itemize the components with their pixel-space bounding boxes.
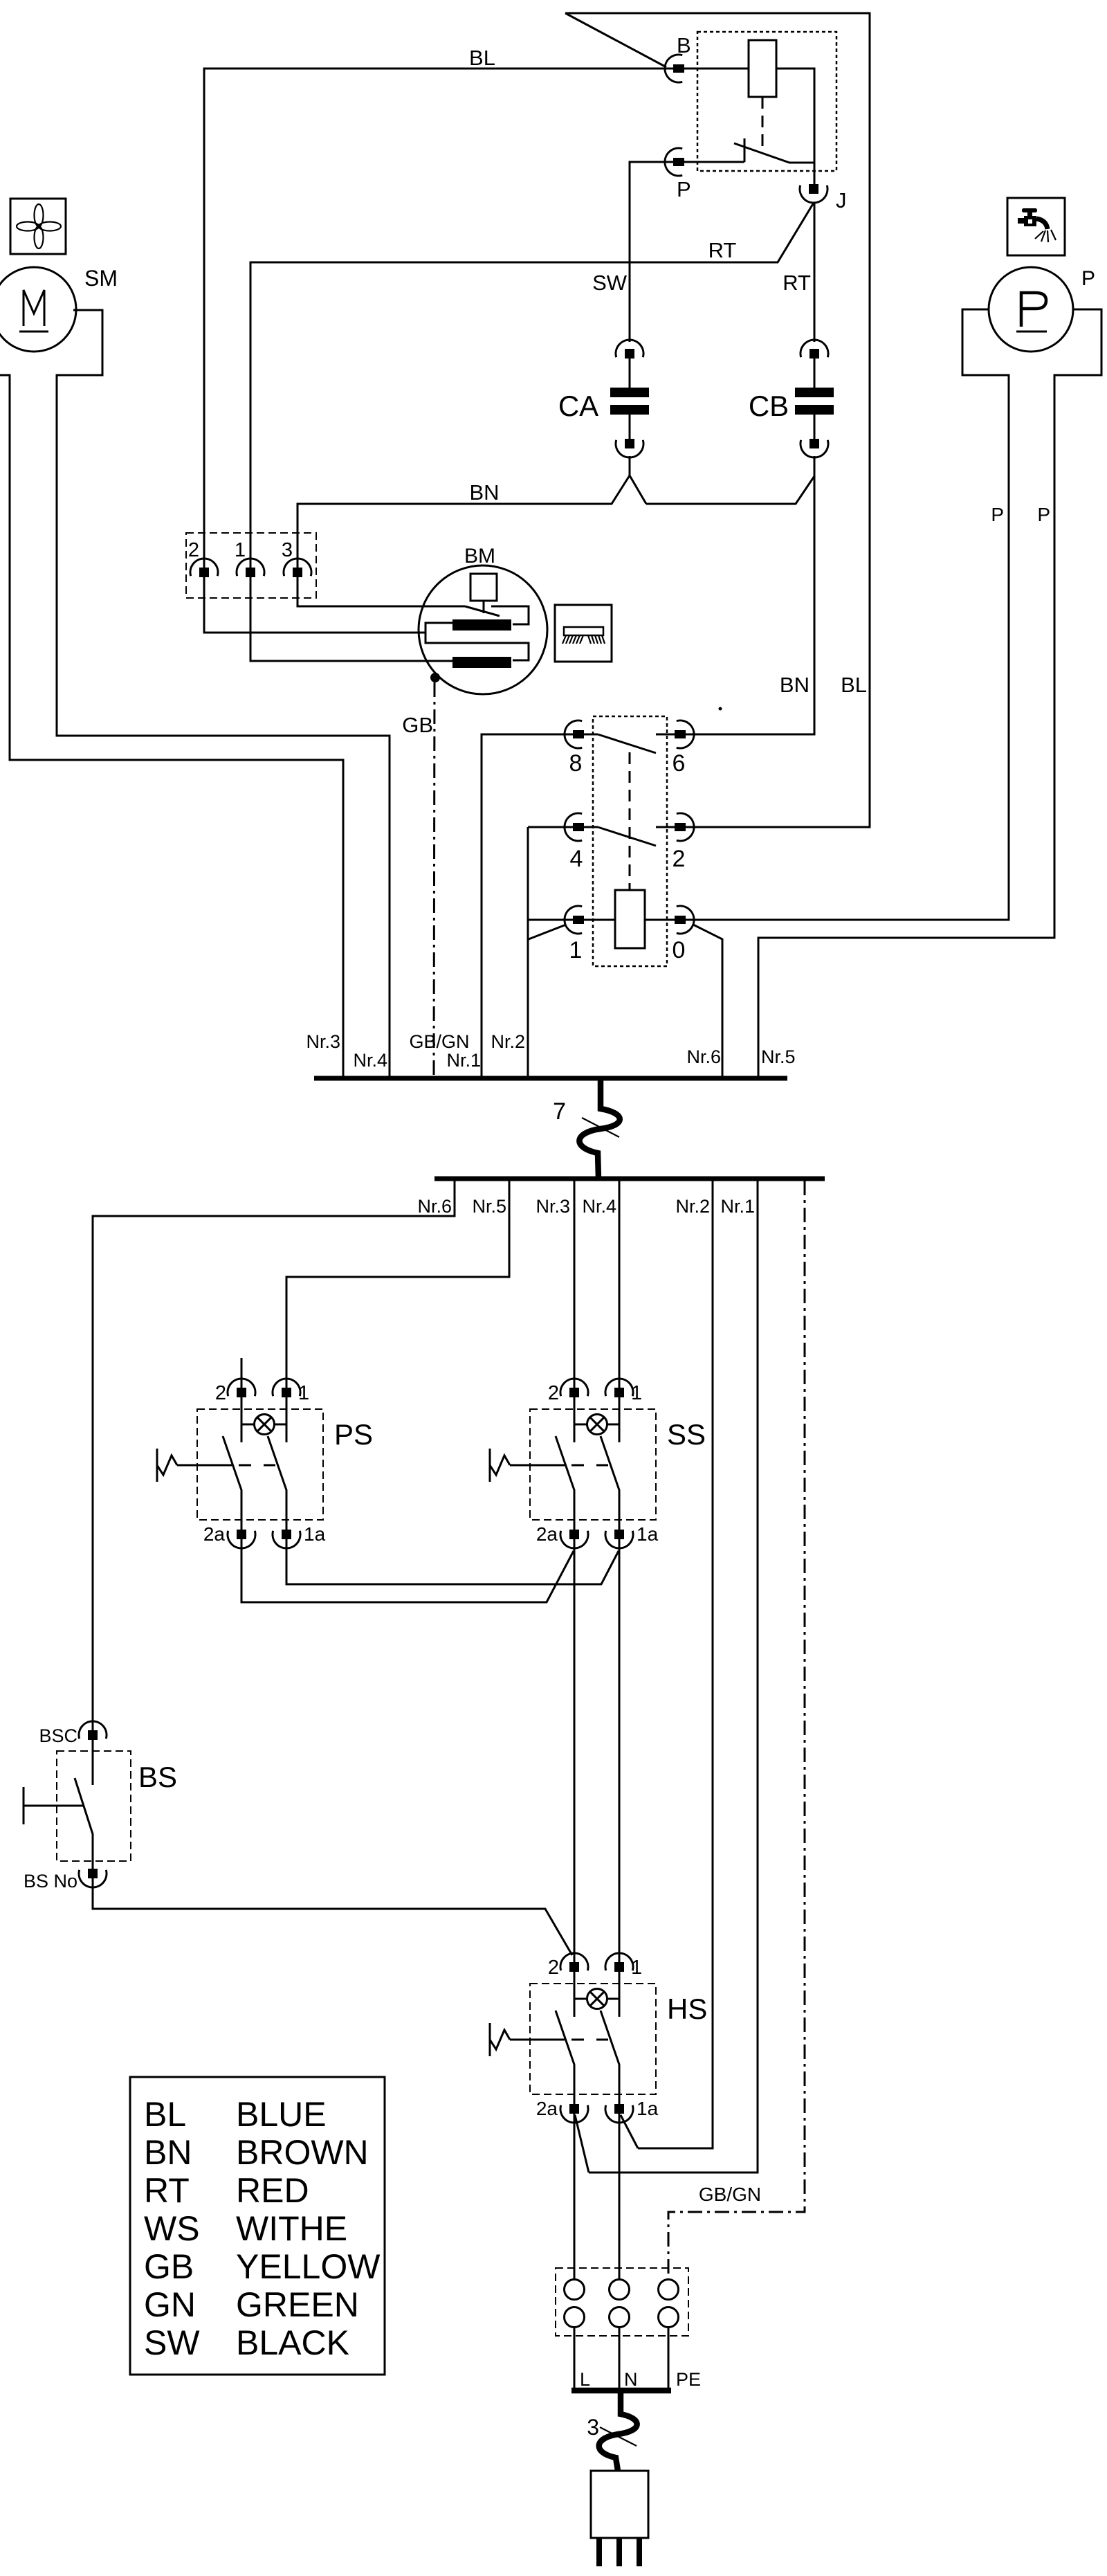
BM junction dot (430, 673, 440, 682)
bus labels lower (417, 1196, 755, 1217)
svg-text:2: 2 (673, 846, 686, 872)
PS connector 2a (203, 1523, 255, 1548)
connector block 2 1 3 (186, 533, 316, 598)
connector 4 (565, 813, 584, 872)
svg-text:1a: 1a (637, 1523, 659, 1545)
wire terminal2 to BM (204, 572, 426, 633)
svg-text:SW: SW (144, 2323, 200, 2362)
wire SM left lead to Nr.3 (0, 375, 343, 1077)
PS connector 1 (273, 1379, 309, 1404)
capacitor CB (749, 340, 834, 457)
wire Nr.5 to PS 1 (286, 1181, 509, 1388)
relay coil (684, 40, 814, 184)
relay actuation link (762, 97, 764, 149)
svg-text:L: L (580, 2369, 590, 2390)
BM armature (426, 606, 529, 668)
svg-text:1: 1 (298, 1382, 309, 1404)
svg-text:BS No: BS No (24, 1871, 77, 1892)
wire HS 1a to terminal N (619, 2114, 621, 2279)
wire Nr.2 riser (528, 827, 574, 1077)
HS actuator (490, 2023, 565, 2056)
svg-text:Nr.5: Nr.5 (761, 1046, 796, 1067)
PS lamp (241, 1397, 286, 1442)
connector 0 (673, 906, 695, 963)
svg-text:SS: SS (667, 1418, 706, 1451)
svg-text:2: 2 (548, 1382, 559, 1404)
svg-text:N: N (624, 2369, 638, 2390)
wire Nr.2 riser down (638, 1181, 713, 2148)
BS contact (75, 1740, 93, 1869)
legend box (130, 2077, 385, 2375)
capacitor CA (558, 340, 649, 457)
svg-text:SW: SW (592, 271, 628, 295)
switch BS (57, 1751, 177, 1861)
svg-text:1: 1 (235, 539, 246, 561)
svg-text:GB/GN: GB/GN (699, 2184, 761, 2205)
svg-text:CA: CA (558, 390, 598, 422)
switch dotted box (593, 716, 667, 966)
svg-text:SM: SM (84, 266, 118, 291)
bus labels upper (306, 1031, 795, 1071)
svg-text:1: 1 (569, 937, 583, 963)
wire Nr.4 to SS 1 (619, 1181, 621, 1388)
pump P (989, 267, 1095, 352)
wire HS 2a to Nr.1 (575, 2115, 589, 2173)
svg-text:Nr.4: Nr.4 (582, 1196, 616, 1217)
plug (591, 2471, 648, 2566)
connector 1 (565, 906, 584, 963)
svg-text:GB: GB (402, 713, 433, 737)
svg-text:8: 8 (569, 750, 583, 777)
svg-text:Nr.3: Nr.3 (536, 1196, 570, 1217)
svg-text:1a: 1a (637, 2098, 659, 2119)
svg-text:BL: BL (841, 673, 867, 697)
svg-text:2: 2 (215, 1382, 226, 1404)
PS connector 2 (215, 1379, 255, 1404)
svg-text:J: J (836, 188, 847, 212)
HS connector 2 (548, 1953, 588, 1979)
wire N (619, 2328, 638, 2390)
HS connector 1 (605, 1953, 642, 1979)
switch arm 4-2 (583, 827, 675, 846)
node J (800, 184, 847, 212)
svg-text:P: P (1081, 267, 1095, 290)
bus lower (434, 1177, 825, 1181)
BM stator (470, 574, 497, 613)
relay dotted box (697, 32, 836, 171)
connector B (665, 33, 691, 82)
bus upper (314, 1076, 787, 1081)
motor BM (419, 545, 547, 694)
svg-text:RT: RT (783, 271, 811, 295)
svg-text:B: B (677, 33, 691, 57)
svg-text:BSC: BSC (39, 1725, 77, 1746)
svg-text:P: P (1037, 504, 1050, 525)
wire PS 2a to SS 2a (241, 1539, 574, 1602)
switch coil (583, 890, 675, 948)
svg-text:BROWN: BROWN (236, 2133, 369, 2172)
switch actuation link (629, 752, 631, 890)
svg-text:BN: BN (144, 2133, 192, 2172)
wire GB dash-dot (402, 682, 434, 1077)
relay contact (734, 138, 814, 163)
wire PS 1a to SS 1a (286, 1539, 619, 1584)
wire BL (204, 46, 674, 568)
PS contacts (223, 1436, 286, 1530)
PS connector 1a (273, 1523, 326, 1548)
svg-text:2: 2 (548, 1957, 559, 1979)
wire HS 2a to terminal L (574, 2114, 576, 2279)
connector 1 (235, 539, 264, 577)
svg-text:2: 2 (188, 539, 199, 561)
svg-text:CB: CB (749, 390, 789, 422)
svg-text:Nr.6: Nr.6 (417, 1196, 452, 1217)
switch HS (530, 1984, 707, 2094)
wire SW (592, 162, 674, 342)
fan icon (10, 199, 66, 254)
svg-text:BLUE: BLUE (236, 2095, 327, 2134)
stray dot (719, 707, 722, 711)
SS connector 2a (536, 1523, 588, 1548)
wire HS 1a to Nr.2 (621, 2115, 638, 2148)
BS connector BS No (24, 1869, 107, 1892)
wire L (574, 2328, 590, 2390)
svg-text:GB/GN: GB/GN (409, 1031, 469, 1052)
svg-text:4: 4 (570, 846, 583, 872)
wire BN CA-CB (646, 476, 814, 504)
svg-text:1: 1 (631, 1957, 642, 1979)
svg-text:BM: BM (464, 545, 495, 568)
svg-text:P: P (677, 177, 691, 201)
HS connector 1a (605, 2098, 659, 2123)
svg-text:6: 6 (673, 750, 686, 777)
SS connector 1a (605, 1523, 659, 1548)
SS contacts (556, 1436, 619, 1530)
connector 2 (188, 539, 218, 577)
wire GB/GN dash-dot lower (668, 1181, 805, 2279)
connector P (665, 148, 744, 201)
wire terminal3 to BM (298, 572, 500, 616)
svg-text:Nr.1: Nr.1 (720, 1196, 755, 1217)
svg-text:GREEN: GREEN (236, 2285, 359, 2324)
svg-text:3: 3 (282, 539, 293, 561)
wire 0 to Nr.6 (693, 925, 722, 1077)
svg-text:Nr.3: Nr.3 (306, 1031, 340, 1052)
BS connector BSC (39, 1721, 107, 1746)
svg-text:2a: 2a (536, 2098, 558, 2119)
wire RT to CB (783, 203, 814, 342)
svg-text:BLACK: BLACK (236, 2323, 349, 2362)
svg-text:BL: BL (469, 46, 495, 70)
wire BN CB to switch 6 (685, 456, 814, 734)
cable 7 (553, 1079, 620, 1179)
PS actuator (157, 1449, 232, 1482)
wire Nr.3 to SS 2 (574, 1181, 576, 1388)
SS actuator (490, 1449, 565, 1482)
svg-text:Nr.5: Nr.5 (472, 1196, 506, 1217)
svg-text:Nr.4: Nr.4 (353, 1050, 387, 1071)
wire PE (668, 2328, 701, 2390)
terminal grommet block (556, 2268, 688, 2336)
svg-text:7: 7 (553, 1098, 566, 1125)
bus L N PE (571, 2388, 671, 2394)
svg-text:PE: PE (676, 2369, 701, 2390)
svg-text:BS: BS (138, 1761, 177, 1793)
svg-text:YELLOW: YELLOW (236, 2247, 381, 2286)
svg-text:2a: 2a (536, 1523, 558, 1545)
connector 2 (673, 813, 695, 872)
svg-text:1a: 1a (304, 1523, 326, 1545)
svg-text:HS: HS (667, 1993, 707, 2025)
connector 8 (565, 720, 584, 777)
svg-text:BN: BN (469, 480, 499, 505)
SS lamp (574, 1397, 619, 1442)
cable 3 (587, 2392, 637, 2471)
svg-text:GB: GB (144, 2247, 194, 2286)
svg-text:Nr.2: Nr.2 (491, 1031, 525, 1052)
wire BN from CA (298, 456, 646, 568)
svg-text:Nr.1: Nr.1 (446, 1050, 481, 1071)
SS connector 1 (605, 1379, 642, 1404)
SS connector 2 (548, 1379, 588, 1404)
PS stub (241, 1358, 243, 1388)
wire terminal1 to BM (250, 572, 452, 661)
switch PS (197, 1409, 373, 1520)
wire SS 2a to HS 2 (574, 1539, 576, 1962)
svg-text:Nr.2: Nr.2 (675, 1196, 710, 1217)
svg-text:PS: PS (334, 1418, 373, 1451)
connector 6 (673, 720, 695, 777)
wire SM right lead to Nr.4 (57, 310, 390, 1077)
wire Nr.1 riser down (589, 1181, 758, 2173)
motor SM (0, 266, 118, 352)
svg-text:2a: 2a (203, 1523, 226, 1545)
connector 3 (282, 539, 311, 577)
wire pump right lead to Nr.5 (758, 309, 1101, 1077)
svg-text:BN: BN (780, 673, 809, 697)
svg-text:RT: RT (708, 238, 737, 262)
svg-text:GN: GN (144, 2285, 196, 2324)
svg-text:Nr.6: Nr.6 (686, 1046, 721, 1067)
svg-text:RT: RT (144, 2171, 190, 2210)
svg-text:3: 3 (587, 2415, 599, 2440)
HS lamp (574, 1972, 619, 2017)
svg-text:BL: BL (144, 2095, 186, 2134)
wire pump left lead to connector 0 (685, 309, 1009, 920)
wire SS 1a to HS 1 (619, 1539, 621, 1962)
svg-text:WS: WS (144, 2209, 200, 2248)
switch arm 8-6 (583, 734, 675, 753)
wire RT to terminal 1 (250, 203, 814, 568)
HS contacts (556, 2011, 619, 2104)
wire BS No to HS 2 (93, 1878, 572, 1955)
faucet icon (1007, 198, 1065, 255)
wire Nr.1 to switch 8 (482, 734, 574, 1077)
switch SS (530, 1409, 706, 1520)
svg-text:RED: RED (236, 2171, 309, 2210)
HS connector 2a (536, 2098, 588, 2123)
BS actuator (24, 1787, 84, 1824)
brush icon (555, 605, 612, 662)
svg-text:0: 0 (673, 937, 686, 963)
svg-text:1: 1 (631, 1382, 642, 1404)
svg-text:WITHE: WITHE (236, 2209, 347, 2248)
svg-text:P: P (991, 504, 1004, 525)
wire top B feed (565, 13, 870, 827)
wire Nr.6 to BSC (93, 1181, 455, 1730)
